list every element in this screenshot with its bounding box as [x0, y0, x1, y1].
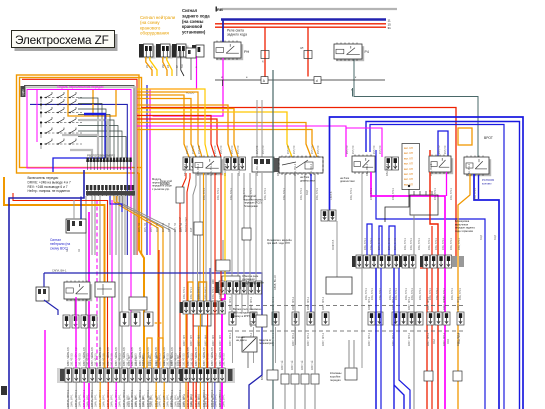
svg-text:2И: 2И	[167, 65, 170, 68]
svg-text:REV: +24В на выводе 6 и 7: REV: +24В на выводе 6 и 7	[28, 185, 68, 189]
svg-text:15Л,ГО: 15Л,ГО	[186, 146, 189, 154]
svg-text:8Н2: 8Н2	[261, 375, 264, 380]
svg-text:заднего хода: заднего хода	[182, 13, 210, 18]
svg-text:15Л,ГО: 15Л,ГО	[262, 146, 265, 154]
svg-text:1ВА, ВН-1: 1ВА, ВН-1	[196, 163, 200, 176]
svg-text:180, ЧЁ-0,5: 180, ЧЁ-0,5	[71, 353, 74, 366]
svg-text:16Л, ГО: 16Л, ГО	[138, 223, 141, 232]
svg-text:15Л,ГО: 15Л,ГО	[352, 146, 355, 154]
svg-text:15Л,ГО: 15Л,ГО	[198, 146, 201, 154]
svg-text:180, ЧЁ-0,5: 180, ЧЁ-0,5	[95, 353, 98, 366]
svg-text:1807,ЧЁ: 1807,ЧЁ	[291, 360, 294, 370]
svg-text:1844, МР: 1844, МР	[156, 355, 159, 366]
svg-text:RB: RB	[217, 7, 223, 12]
svg-text:РН: РН	[244, 50, 250, 54]
svg-text:1ВА, ВН-1: 1ВА, ВН-1	[219, 287, 222, 299]
svg-text:1ВА, ВН-1: 1ВА, ВН-1	[316, 188, 319, 200]
svg-text:ЛДВС: ЛДВС	[21, 89, 25, 96]
svg-text:контакт: контакт	[482, 181, 492, 185]
svg-text:1844, МР: 1844, МР	[177, 396, 180, 407]
svg-text:1ВА, ВН-1: 1ВА, ВН-1	[451, 288, 454, 300]
svg-text:1ВА, ВН-1: 1ВА, ВН-1	[183, 287, 186, 299]
svg-text:1ВА, ВН-1: 1ВА, ВН-1	[243, 188, 246, 200]
svg-text:15Л,ГО: 15Л,ГО	[311, 146, 314, 154]
svg-text:2Б: 2Б	[146, 65, 149, 68]
svg-text:вкл. КП: вкл. КП	[404, 146, 413, 150]
svg-text:1844, МР: 1844, МР	[163, 355, 166, 366]
svg-text:15Л,ГО: 15Л,ГО	[379, 146, 382, 154]
svg-text:1844, МР: 1844, МР	[135, 355, 138, 366]
svg-text:1ВА, ВН-1: 1ВА, ВН-1	[350, 188, 353, 200]
svg-text:184А, МР-1: 184А, МР-1	[71, 394, 74, 407]
svg-text:1844, МР: 1844, МР	[163, 396, 166, 407]
svg-text:1ВА, ВН-1: 1ВА, ВН-1	[212, 287, 215, 299]
svg-text:1ВА, ВН-1: 1ВА, ВН-1	[217, 188, 220, 200]
svg-text:1,6ГЛ,В: 1,6ГЛ,В	[330, 191, 333, 200]
svg-text:Р4: Р4	[365, 50, 369, 54]
svg-text:1807,ЧЁ: 1807,ЧЁ	[301, 360, 304, 370]
svg-text:180, ЧЁ-0,5: 180, ЧЁ-0,5	[103, 353, 106, 366]
svg-text:МА4: МА4	[433, 338, 436, 344]
svg-text:180, ЧЁ-0,5: 180, ЧЁ-0,5	[183, 353, 186, 366]
svg-text:180, ЧЁ-0,5: 180, ЧЁ-0,5	[87, 353, 90, 366]
svg-text:15Л,ГО: 15Л,ГО	[256, 146, 259, 154]
svg-text:вкл. КП: вкл. КП	[404, 151, 413, 155]
svg-text:1ВА, ВН-1: 1ВА, ВН-1	[283, 188, 286, 200]
svg-text:1844, МР: 1844, МР	[135, 396, 138, 407]
svg-text:1ВА, ВН-1: 1ВА, ВН-1	[436, 288, 439, 300]
svg-text:1ВА, ВН-1: 1ВА, ВН-1	[429, 288, 432, 300]
svg-text:31,8: 31,8	[494, 235, 497, 240]
svg-text:15Л,ГО: 15Л,ГО	[192, 146, 195, 154]
svg-text:вкл. КП: вкл. КП	[404, 177, 413, 181]
svg-text:1807, МН-1: 1807, МН-1	[443, 332, 446, 346]
svg-text:1807, ЧЁРН-0,5: 1807, ЧЁРН-0,5	[218, 347, 222, 366]
svg-text:1807, МН-1: 1807, МН-1	[307, 296, 310, 310]
svg-text:1844, МР: 1844, МР	[128, 355, 131, 366]
svg-text:1844, МР: 1844, МР	[149, 355, 152, 366]
svg-text:1ВА, ВН-1: 1ВА, ВН-1	[443, 288, 446, 300]
svg-text:15Л,ГО: 15Л,ГО	[220, 146, 223, 154]
svg-text:184А, МР-1: 184А, МР-1	[103, 394, 106, 407]
svg-text:регулятора усилия: регулятора усилия	[242, 281, 264, 284]
svg-text:3Л: 3Л	[300, 46, 304, 50]
svg-text:ВРОТ: ВРОТ	[484, 136, 493, 140]
svg-text:1807, МН-1: 1807, МН-1	[427, 332, 430, 346]
svg-text:1ВА, ВН-1: 1ВА, ВН-1	[364, 238, 367, 250]
svg-text:Х00: Х00	[211, 279, 215, 284]
svg-text:180, ЧЁ-0,5: 180, ЧЁ-0,5	[119, 353, 122, 366]
svg-text:180, ЧЁ-0,5: 180, ЧЁ-0,5	[223, 353, 226, 366]
svg-text:1ВА, ВН-1: 1ВА, ВН-1	[378, 238, 381, 250]
svg-text:1ВА, ВН-1: 1ВА, ВН-1	[411, 288, 414, 300]
svg-text:1844, МР: 1844, МР	[142, 355, 145, 366]
svg-text:180, ЧЁ-0,5: 180, ЧЁ-0,5	[111, 353, 114, 366]
svg-text:1ВА, ВН-1: 1ВА, ВН-1	[458, 238, 461, 250]
svg-text:1807, ЧЁРН-0,5: 1807, ЧЁРН-0,5	[90, 347, 94, 366]
svg-text:15Л,ГО: 15Л,ГО	[237, 146, 240, 154]
svg-text:8Л: 8Л	[176, 65, 179, 68]
svg-text:1ВА, ВН-1: 1ВА, ВН-1	[365, 288, 368, 300]
svg-text:1ВА, ВН-1: 1ВА, ВН-1	[264, 188, 267, 200]
svg-text:16Л, ГО: 16Л, ГО	[150, 223, 153, 232]
svg-text:вкл. КП: вкл. КП	[404, 172, 413, 176]
svg-text:15Л,ГО: 15Л,ГО	[373, 146, 376, 154]
svg-text:16Л, ГО: 16Л, ГО	[180, 223, 183, 232]
svg-text:СЛАВ, ВU-10: СЛАВ, ВU-10	[274, 275, 277, 290]
svg-text:1807, ЧЁРН-0,5: 1807, ЧЁРН-0,5	[194, 347, 198, 366]
svg-text:16Л, ГО: 16Л, ГО	[174, 223, 177, 232]
svg-text:1ВА, ВН-1: 1ВА, ВН-1	[389, 288, 392, 300]
svg-text:1ВА, ВН-1: 1ВА, ВН-1	[230, 188, 233, 200]
svg-text:Педаль переключения передач: Педаль переключения передач	[57, 85, 104, 89]
svg-text:1ВА, ВН-1: 1ВА, ВН-1	[365, 163, 369, 176]
svg-text:1ВА, ВН-1: 1ВА, ВН-1	[459, 288, 462, 300]
svg-text:1807, МН-1: 1807, МН-1	[229, 332, 232, 346]
svg-text:Нейтр.: напряж. не подается: Нейтр.: напряж. не подается	[28, 189, 71, 193]
svg-text:1ВА, ВН-1: 1ВА, ВН-1	[394, 238, 397, 250]
svg-text:184А, МР-1: 184А, МР-1	[95, 394, 98, 407]
svg-text:1ВА, ВН-1: 1ВА, ВН-1	[276, 163, 280, 176]
svg-text:1ВА, ВН-1: 1ВА, ВН-1	[404, 238, 407, 250]
svg-text:1807, ЧЁРН-0,5: 1807, ЧЁРН-0,5	[106, 347, 110, 366]
svg-text:передач: передач	[330, 378, 341, 382]
svg-text:1ВА, ВН-1: 1ВА, ВН-1	[388, 238, 391, 250]
svg-text:МА5: МА5	[447, 338, 450, 344]
svg-text:1ВА, ВН-1: 1ВА, ВН-1	[371, 288, 374, 300]
svg-text:1ВА, ВН-1: 1ВА, ВН-1	[197, 287, 200, 299]
svg-text:15Л,ГО: 15Л,ГО	[287, 146, 290, 154]
svg-text:1ВА, ВН-1: 1ВА, ВН-1	[203, 188, 206, 200]
svg-text:16Л, ГО: 16Л, ГО	[168, 223, 171, 232]
svg-text:1807, МН-1: 1807, МН-1	[368, 332, 371, 346]
svg-text:1807, ЧЁРН-0,5: 1807, ЧЁРН-0,5	[66, 347, 70, 366]
svg-text:1ВА, ВН-1: 1ВА, ВН-1	[300, 188, 303, 200]
svg-text:1844, МР: 1844, МР	[156, 396, 159, 407]
svg-text:184А, МР-1: 184А, МР-1	[223, 394, 226, 407]
svg-text:перенапряж.: перенапряж.	[259, 342, 275, 345]
svg-text:1807, ЧЁРН-0,5: 1807, ЧЁРН-0,5	[202, 347, 206, 366]
svg-text:1807, МН-1: 1807, МН-1	[307, 332, 310, 346]
svg-text:оборудования: оборудования	[140, 31, 169, 36]
svg-text:d: d	[316, 79, 318, 83]
svg-text:1807, ЧЁРН-0,5: 1807, ЧЁРН-0,5	[186, 347, 190, 366]
svg-text:31: 31	[388, 26, 392, 30]
svg-text:31,8: 31,8	[306, 190, 309, 195]
svg-text:с рычагом упр.: с рычагом упр.	[152, 188, 170, 191]
svg-text:блокировки: блокировки	[244, 204, 258, 208]
svg-text:184А, МР-1: 184А, МР-1	[79, 394, 82, 407]
svg-text:180, ЧЁ-0,5: 180, ЧЁ-0,5	[79, 353, 82, 366]
svg-text:15Л,ГО: 15Л,ГО	[444, 146, 447, 154]
svg-text:Сигнал: Сигнал	[182, 8, 198, 13]
svg-text:1ВА, ВН-1: 1ВА, ВН-1	[442, 238, 445, 250]
svg-text:5М: 5М	[181, 65, 184, 68]
svg-text:Включатель передач: Включатель передач	[28, 176, 59, 180]
svg-text:1ВА, ВН-1: 1ВА, ВН-1	[379, 288, 382, 300]
svg-text:при своб. ходе КПП: при своб. ходе КПП	[267, 242, 290, 245]
svg-text:15Л,ГО: 15Л,ГО	[214, 146, 217, 154]
svg-text:16Л, ГО: 16Л, ГО	[162, 223, 165, 232]
svg-text:1ВА, ВН-1: 1ВА, ВН-1	[370, 188, 373, 200]
svg-text:1ВА, ВН-1: 1ВА, ВН-1	[450, 188, 453, 200]
svg-text:1ВА, ВН-1: 1ВА, ВН-1	[250, 188, 253, 200]
svg-text:1807,ЧЁ: 1807,ЧЁ	[311, 360, 314, 370]
svg-text:15Л,ГО: 15Л,ГО	[231, 146, 234, 154]
svg-text:1ВА, ВН-1: 1ВА, ВН-1	[474, 188, 477, 200]
svg-text:1807,ЧЁ: 1807,ЧЁ	[281, 360, 284, 370]
svg-text:184А, МР-1: 184А, МР-1	[119, 394, 122, 407]
svg-text:(на схемы: (на схемы	[182, 19, 204, 24]
svg-text:1ВА, ВН-1: 1ВА, ВН-1	[370, 238, 373, 250]
svg-text:диагностики: диагностики	[340, 180, 355, 183]
svg-text:16Л, ГО: 16Л, ГО	[144, 223, 147, 232]
svg-text:1807, ЧЁРН-0,5: 1807, ЧЁРН-0,5	[122, 347, 126, 366]
svg-text:15Л,ГО: 15Л,ГО	[293, 146, 296, 154]
svg-text:DRIVE: +24В на выводе 4 и 7: DRIVE: +24В на выводе 4 и 7	[28, 180, 72, 184]
svg-text:1ВА, ВН-1: 1ВА, ВН-1	[435, 238, 438, 250]
svg-text:1844, МР: 1844, МР	[149, 396, 152, 407]
svg-text:1807, ЧЁРН-0,5: 1807, ЧЁРН-0,5	[210, 347, 214, 366]
svg-text:вкл. КП: вкл. КП	[404, 167, 413, 171]
svg-text:184А, МР-1: 184А, МР-1	[111, 394, 114, 407]
svg-text:16Л, ГО: 16Л, ГО	[156, 223, 159, 232]
svg-text:1ВА, ВН-1: 1ВА, ВН-1	[410, 238, 413, 250]
svg-text:1807, ЧЁРН-0,5: 1807, ЧЁРН-0,5	[82, 347, 86, 366]
svg-text:1807, МН-1: 1807, МН-1	[408, 332, 411, 346]
svg-text:схему а КПП): схему а КПП)	[233, 314, 250, 318]
svg-text:1807, МН-1: 1807, МН-1	[322, 332, 325, 346]
svg-text:Х1СТ: Х1СТ	[250, 320, 253, 327]
svg-text:РВ2Л2Г2В2Н2М2Р2: РВ2Л2Г2В2Н2М2Р2	[87, 154, 115, 158]
svg-text:1ВА, ВН-1: 1ВА, ВН-1	[418, 238, 421, 250]
svg-text:1844, МР: 1844, МР	[170, 355, 173, 366]
svg-text:Электросхема ZF: Электросхема ZF	[15, 33, 109, 47]
svg-text:1ВА, ВН-1: 1ВА, ВН-1	[428, 238, 431, 250]
svg-text:хода тормозом: хода тормозом	[455, 230, 473, 233]
svg-text:вкл. КП: вкл. КП	[404, 162, 413, 166]
svg-text:1ВА, ВН-1: 1ВА, ВН-1	[434, 188, 437, 200]
svg-text:31,8: 31,8	[480, 235, 483, 240]
svg-text:1ВА, ВН-1: 1ВА, ВН-1	[392, 188, 395, 200]
svg-text:1844, МР: 1844, МР	[142, 396, 145, 407]
svg-text:15Л,ГО: 15Л,ГО	[317, 146, 320, 154]
svg-text:1807, ЧЁРН-0,5: 1807, ЧЁРН-0,5	[98, 347, 102, 366]
svg-text:184А, МР-1: 184А, МР-1	[87, 394, 90, 407]
svg-text:САПА, ВН-1: САПА, ВН-1	[52, 269, 67, 273]
svg-text:1844, МР: 1844, МР	[170, 396, 173, 407]
svg-text:1ВА, ВН-1: 1ВА, ВН-1	[419, 288, 422, 300]
svg-text:1ВА, ВН-1: 1ВА, ВН-1	[405, 288, 408, 300]
svg-text:1ВА, ВН-1: 1ВА, ВН-1	[450, 238, 453, 250]
svg-text:1807, МН-1: 1807, МН-1	[322, 296, 325, 310]
svg-text:1844, МР: 1844, МР	[177, 355, 180, 366]
svg-text:МО6ГЛ,В: МО6ГЛ,В	[332, 239, 335, 250]
svg-text:Х1Т: Х1Т	[190, 227, 193, 232]
svg-text:1ВА, ВН-1: 1ВА, ВН-1	[395, 288, 398, 300]
svg-text:крановой: крановой	[182, 24, 203, 29]
svg-text:1844, МР: 1844, МР	[128, 396, 131, 407]
svg-text:вкл. КП: вкл. КП	[404, 156, 413, 160]
svg-text:диагностики: диагностики	[300, 179, 315, 182]
svg-text:заднего хода: заднего хода	[227, 33, 247, 37]
svg-text:1ВА, ВН-1: 1ВА, ВН-1	[190, 287, 193, 299]
svg-text:МА6, МА7: МА6, МА7	[458, 332, 461, 344]
svg-text:на диагн.: на диагн.	[236, 339, 247, 342]
svg-text:1ВА, ВН-1: 1ВА, ВН-1	[385, 163, 389, 176]
svg-text:15Л,ГО: 15Л,ГО	[438, 146, 441, 154]
svg-text:15Л,ГО: 15Л,ГО	[346, 146, 349, 154]
svg-text:установки): установки)	[182, 30, 206, 35]
svg-text:1807, ЧЁРН-0,5: 1807, ЧЁРН-0,5	[114, 347, 118, 366]
